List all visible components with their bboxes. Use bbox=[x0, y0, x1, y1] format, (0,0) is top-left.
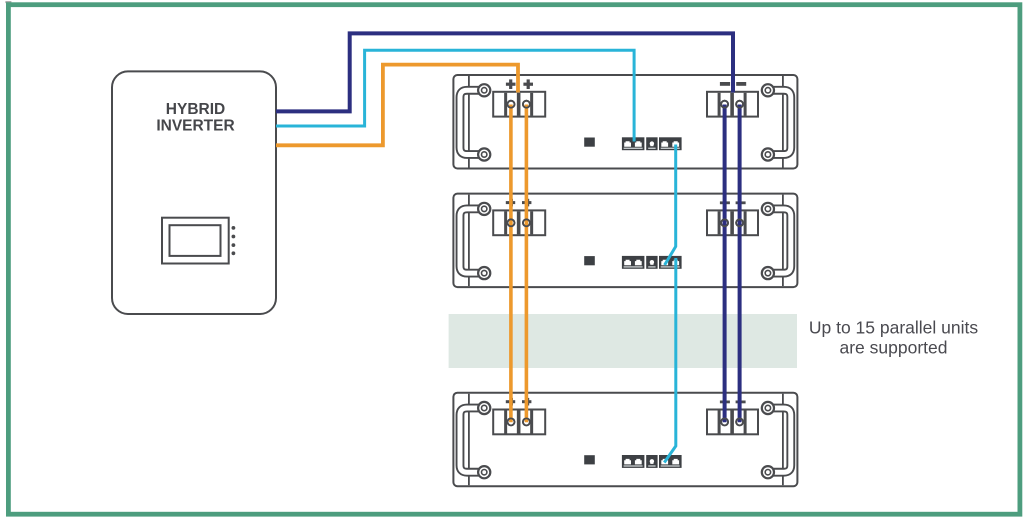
inverter button dots bbox=[232, 226, 236, 230]
wire: navy negative daisy chain vertical 2 bbox=[738, 105, 742, 423]
hybrid inverter U1 bbox=[112, 71, 276, 314]
svg-text:INVERTER: INVERTER bbox=[156, 118, 234, 135]
wire: orange positive daisy chain vertical 2 bbox=[525, 105, 529, 423]
wire: BAT- navy from inverter to battery 1 negative bbox=[276, 33, 733, 111]
corner printing tick bbox=[5, 1, 11, 3]
wire: cyan comms from inverter to battery 1 bbox=[276, 50, 634, 141]
svg-text:HYBRID: HYBRID bbox=[166, 101, 225, 118]
parallel-units band bbox=[449, 314, 797, 368]
battery unit 1 bbox=[453, 75, 797, 169]
wire: cyan comms battery 1 to battery 2 bbox=[665, 145, 676, 266]
battery unit 3 bbox=[453, 393, 797, 487]
inverter display screen bbox=[162, 218, 229, 264]
battery 3 terminal rings overlay bbox=[508, 418, 744, 425]
svg-text:Up to 15 parallel units: Up to 15 parallel units bbox=[809, 318, 979, 338]
battery unit 2 bbox=[453, 194, 797, 288]
battery 1 polarity marks bbox=[506, 79, 746, 89]
wire: BAT+ orange from inverter to battery 1 positive bbox=[276, 65, 518, 146]
wire: navy negative daisy chain vertical 1 bbox=[723, 105, 727, 423]
svg-text:are supported: are supported bbox=[840, 338, 948, 358]
battery 3 polarity marks bbox=[506, 398, 746, 406]
battery 1 terminal rings overlay bbox=[508, 101, 744, 108]
wire: orange positive daisy chain vertical 1 bbox=[509, 105, 513, 423]
wire: cyan comms battery 2 to battery 3 bbox=[664, 258, 676, 463]
battery 2 terminal rings overlay bbox=[508, 219, 744, 226]
battery 2 polarity marks bbox=[506, 199, 746, 207]
